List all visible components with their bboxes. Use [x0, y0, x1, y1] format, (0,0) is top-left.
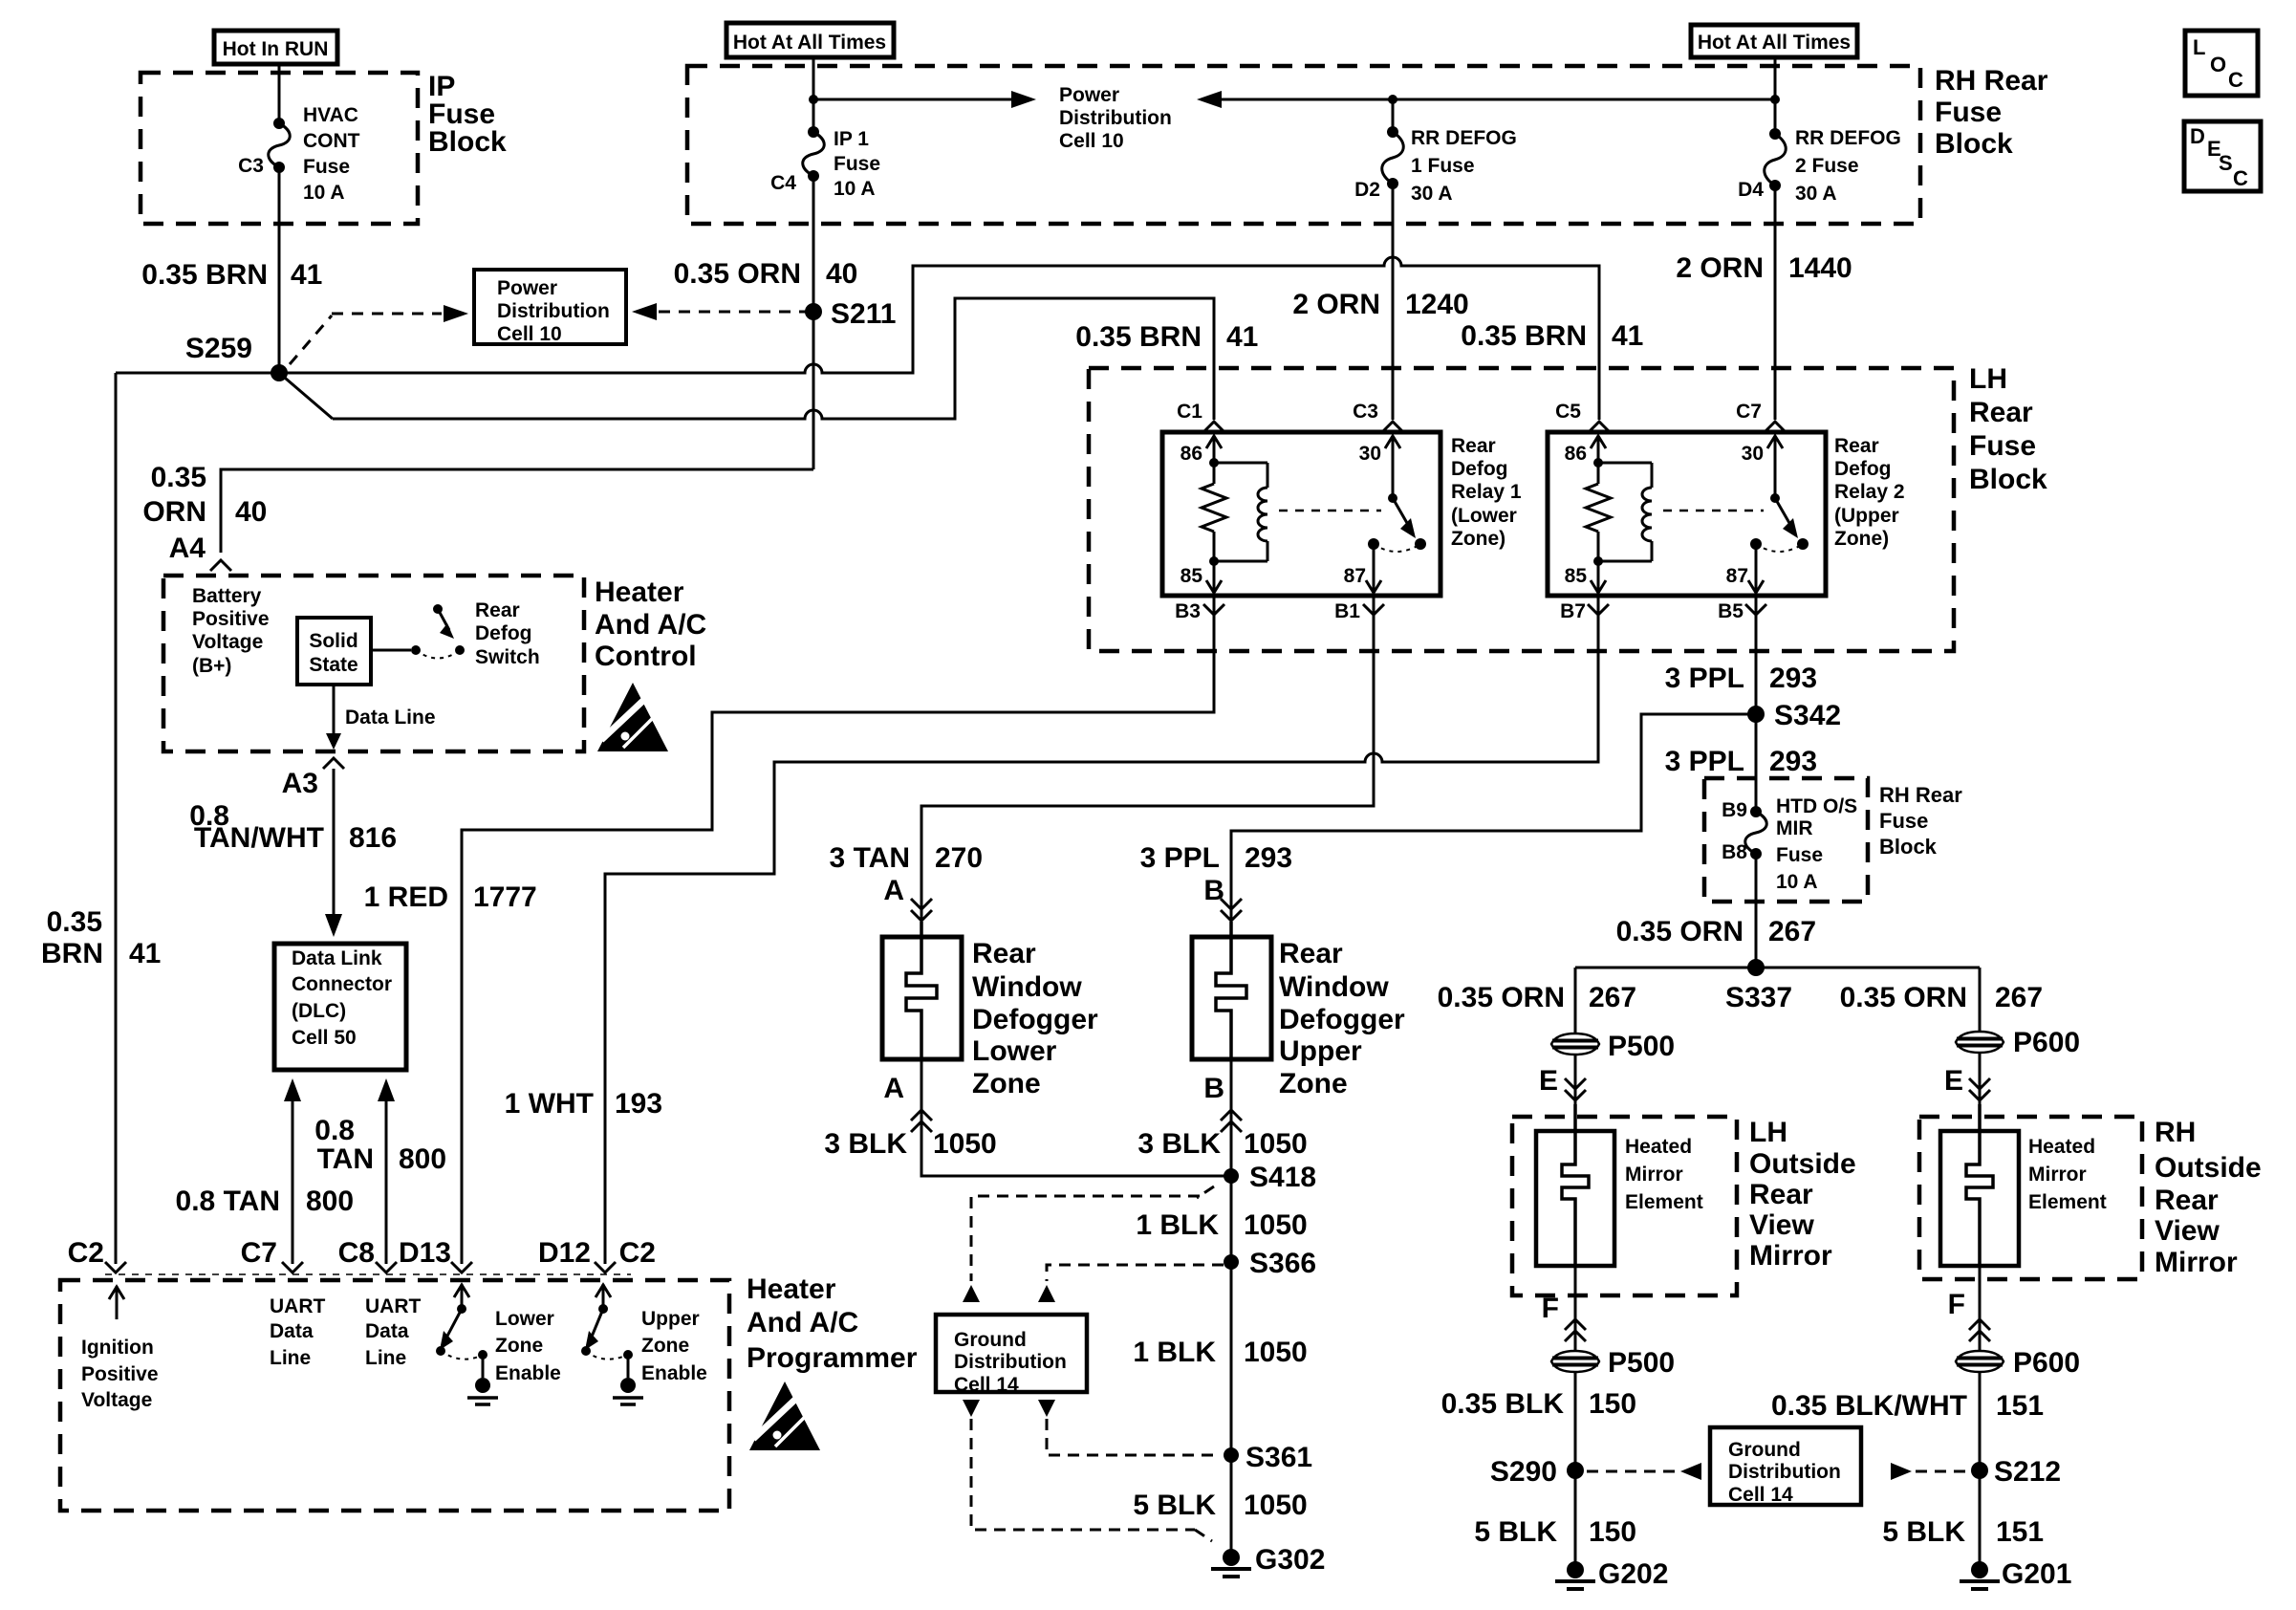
- svg-text:86: 86: [1180, 443, 1202, 465]
- svg-text:Block: Block: [1935, 128, 2013, 160]
- svg-text:Mirror: Mirror: [1749, 1240, 1832, 1272]
- svg-text:S212: S212: [1994, 1456, 2061, 1488]
- svg-text:Programmer: Programmer: [747, 1342, 918, 1374]
- svg-text:C3: C3: [1353, 401, 1378, 423]
- svg-text:Lower: Lower: [972, 1035, 1057, 1067]
- svg-text:267: 267: [1995, 982, 2043, 1013]
- svg-text:Mirror: Mirror: [2028, 1164, 2087, 1186]
- svg-text:1 BLK: 1 BLK: [1133, 1337, 1216, 1368]
- svg-text:Power: Power: [497, 277, 557, 299]
- svg-text:41: 41: [291, 259, 322, 291]
- svg-text:2 ORN: 2 ORN: [1676, 252, 1764, 284]
- svg-text:40: 40: [826, 258, 857, 290]
- svg-text:Defogger: Defogger: [1279, 1004, 1405, 1035]
- svg-text:87: 87: [1344, 565, 1366, 587]
- svg-text:Relay 1: Relay 1: [1451, 481, 1522, 503]
- svg-text:Heater: Heater: [595, 577, 684, 608]
- svg-text:Cell 14: Cell 14: [954, 1374, 1019, 1396]
- svg-text:B: B: [1203, 1073, 1224, 1104]
- svg-text:B7: B7: [1560, 600, 1586, 622]
- svg-text:800: 800: [399, 1143, 446, 1175]
- svg-text:Fuse: Fuse: [834, 153, 880, 175]
- svg-text:S259: S259: [185, 333, 252, 364]
- svg-text:O: O: [2210, 53, 2226, 76]
- svg-text:Heated: Heated: [2028, 1136, 2095, 1158]
- svg-text:Cell 50: Cell 50: [292, 1027, 357, 1049]
- svg-text:LH: LH: [1969, 363, 2007, 395]
- svg-text:Fuse: Fuse: [1776, 844, 1823, 866]
- svg-text:Zone: Zone: [495, 1335, 543, 1357]
- svg-text:Connector: Connector: [292, 973, 392, 995]
- svg-text:Data: Data: [365, 1320, 409, 1342]
- svg-text:Cell 10: Cell 10: [497, 323, 562, 345]
- svg-text:Rear: Rear: [1834, 435, 1879, 457]
- svg-text:0.35 ORN: 0.35 ORN: [1438, 982, 1565, 1013]
- svg-text:0.8 TAN: 0.8 TAN: [176, 1186, 280, 1217]
- svg-text:Data: Data: [270, 1320, 314, 1342]
- svg-text:Heated: Heated: [1625, 1136, 1692, 1158]
- svg-text:State: State: [309, 654, 357, 676]
- svg-text:30: 30: [1359, 443, 1381, 465]
- svg-text:1 WHT: 1 WHT: [505, 1088, 594, 1120]
- svg-text:Defog: Defog: [475, 622, 532, 644]
- svg-text:CONT: CONT: [303, 130, 360, 152]
- svg-text:IP 1: IP 1: [834, 128, 869, 150]
- svg-text:1050: 1050: [933, 1128, 997, 1160]
- svg-text:5 BLK: 5 BLK: [1474, 1516, 1557, 1548]
- svg-text:E: E: [1944, 1065, 1963, 1097]
- svg-text:3 TAN: 3 TAN: [830, 842, 910, 874]
- svg-text:2 Fuse: 2 Fuse: [1795, 155, 1859, 177]
- svg-text:S337: S337: [1725, 982, 1792, 1013]
- svg-text:0.35: 0.35: [47, 906, 102, 938]
- svg-text:151: 151: [1996, 1390, 2044, 1422]
- svg-text:193: 193: [615, 1088, 662, 1120]
- svg-text:HTD O/S: HTD O/S: [1776, 795, 1857, 817]
- svg-text:C1: C1: [1177, 401, 1202, 423]
- svg-text:B5: B5: [1718, 600, 1744, 622]
- svg-text:Cell 10: Cell 10: [1059, 130, 1124, 152]
- svg-text:Rear: Rear: [1451, 435, 1496, 457]
- svg-text:Relay 2: Relay 2: [1834, 481, 1905, 503]
- svg-text:151: 151: [1996, 1516, 2044, 1548]
- svg-text:C7: C7: [241, 1237, 277, 1269]
- svg-text:S342: S342: [1774, 700, 1841, 731]
- svg-text:270: 270: [935, 842, 983, 874]
- svg-text:0.35 BLK/WHT: 0.35 BLK/WHT: [1771, 1390, 1967, 1422]
- svg-text:B8: B8: [1722, 841, 1747, 863]
- svg-text:0.35 ORN: 0.35 ORN: [1616, 916, 1744, 947]
- svg-text:150: 150: [1589, 1388, 1636, 1420]
- svg-text:View: View: [2155, 1215, 2220, 1247]
- svg-text:1 RED: 1 RED: [364, 881, 448, 913]
- svg-text:Control: Control: [595, 641, 697, 672]
- svg-text:UART: UART: [270, 1295, 325, 1317]
- svg-text:Lower: Lower: [495, 1308, 554, 1330]
- svg-text:Zone: Zone: [641, 1335, 689, 1357]
- svg-text:Ignition: Ignition: [81, 1337, 154, 1359]
- svg-text:0.35 ORN: 0.35 ORN: [674, 258, 801, 290]
- svg-text:BRN: BRN: [41, 938, 103, 969]
- svg-text:(B+): (B+): [192, 655, 231, 677]
- svg-text:40: 40: [235, 496, 267, 528]
- svg-text:0.35: 0.35: [151, 462, 206, 493]
- svg-text:Zone: Zone: [972, 1068, 1041, 1099]
- svg-text:2 ORN: 2 ORN: [1292, 289, 1380, 320]
- svg-text:(DLC): (DLC): [292, 1000, 346, 1022]
- svg-text:TAN: TAN: [317, 1143, 374, 1175]
- svg-text:293: 293: [1769, 746, 1817, 777]
- svg-text:3 PPL: 3 PPL: [1140, 842, 1220, 874]
- svg-text:Battery: Battery: [192, 585, 262, 607]
- svg-text:41: 41: [1226, 321, 1258, 353]
- svg-text:5 BLK: 5 BLK: [1882, 1516, 1965, 1548]
- svg-text:(Lower: (Lower: [1451, 505, 1517, 527]
- svg-text:85: 85: [1565, 565, 1588, 587]
- svg-text:Solid: Solid: [309, 630, 357, 652]
- svg-text:C: C: [2233, 166, 2248, 190]
- svg-text:85: 85: [1180, 565, 1203, 587]
- svg-text:Ground: Ground: [954, 1329, 1027, 1351]
- svg-text:B9: B9: [1722, 799, 1747, 821]
- svg-text:Power: Power: [1059, 84, 1119, 106]
- svg-text:Line: Line: [270, 1347, 311, 1369]
- svg-text:Line: Line: [365, 1347, 406, 1369]
- svg-text:Heater: Heater: [747, 1273, 836, 1305]
- svg-text:S361: S361: [1245, 1442, 1312, 1473]
- svg-text:P500: P500: [1608, 1031, 1675, 1062]
- svg-text:3 PPL: 3 PPL: [1665, 663, 1744, 694]
- svg-text:RR DEFOG: RR DEFOG: [1411, 127, 1517, 149]
- svg-text:S290: S290: [1490, 1456, 1557, 1488]
- svg-text:Upper: Upper: [641, 1308, 700, 1330]
- svg-text:1 Fuse: 1 Fuse: [1411, 155, 1475, 177]
- svg-text:P500: P500: [1608, 1347, 1675, 1379]
- svg-text:F: F: [1948, 1289, 1965, 1320]
- svg-text:A: A: [883, 1073, 904, 1104]
- svg-text:A4: A4: [169, 533, 206, 564]
- svg-text:41: 41: [129, 938, 161, 969]
- svg-text:Window: Window: [972, 971, 1082, 1003]
- svg-text:S: S: [2219, 151, 2233, 175]
- svg-text:800: 800: [306, 1186, 354, 1217]
- svg-text:1050: 1050: [1244, 1337, 1308, 1368]
- svg-text:Distribution: Distribution: [497, 300, 610, 322]
- svg-text:1 BLK: 1 BLK: [1136, 1209, 1219, 1241]
- svg-text:Rear: Rear: [1749, 1179, 1813, 1210]
- svg-text:293: 293: [1769, 663, 1817, 694]
- svg-text:Positive: Positive: [81, 1363, 159, 1385]
- svg-text:C: C: [2228, 68, 2243, 92]
- svg-text:C2: C2: [68, 1237, 104, 1269]
- svg-text:D: D: [2190, 124, 2205, 148]
- svg-text:D12: D12: [538, 1237, 591, 1269]
- svg-text:Defog: Defog: [1451, 458, 1508, 480]
- svg-text:Rear: Rear: [972, 938, 1036, 969]
- svg-text:C7: C7: [1736, 401, 1762, 423]
- svg-text:10 A: 10 A: [303, 182, 345, 204]
- svg-text:Hot In RUN: Hot In RUN: [223, 38, 329, 60]
- svg-text:1440: 1440: [1788, 252, 1852, 284]
- svg-text:0.35 ORN: 0.35 ORN: [1840, 982, 1967, 1013]
- svg-text:Hot At All Times: Hot At All Times: [1698, 32, 1851, 54]
- svg-text:(Upper: (Upper: [1834, 505, 1899, 527]
- svg-text:D13: D13: [399, 1237, 451, 1269]
- svg-text:MIR: MIR: [1776, 817, 1813, 839]
- svg-text:L: L: [2193, 35, 2205, 59]
- svg-text:0.35 BRN: 0.35 BRN: [1075, 321, 1202, 353]
- svg-text:And A/C: And A/C: [595, 609, 706, 641]
- svg-text:1050: 1050: [1244, 1128, 1308, 1160]
- svg-text:86: 86: [1565, 443, 1587, 465]
- svg-text:Block: Block: [1969, 464, 2047, 495]
- svg-text:Hot At All Times: Hot At All Times: [733, 32, 886, 54]
- svg-text:150: 150: [1589, 1516, 1636, 1548]
- svg-text:267: 267: [1768, 916, 1816, 947]
- svg-text:F: F: [1542, 1293, 1559, 1324]
- svg-text:Outside: Outside: [2155, 1152, 2262, 1184]
- svg-text:3 BLK: 3 BLK: [824, 1128, 907, 1160]
- svg-text:E: E: [1539, 1065, 1558, 1097]
- svg-text:B1: B1: [1334, 600, 1360, 622]
- svg-text:Positive: Positive: [192, 608, 270, 630]
- svg-text:ORN: ORN: [142, 496, 206, 528]
- svg-text:Outside: Outside: [1749, 1148, 1856, 1180]
- svg-text:G302: G302: [1255, 1544, 1325, 1576]
- svg-text:Fuse: Fuse: [303, 156, 350, 178]
- svg-text:Zone): Zone): [1451, 528, 1505, 550]
- svg-text:D2: D2: [1354, 179, 1380, 201]
- svg-text:RH: RH: [2155, 1117, 2196, 1148]
- svg-text:Defog: Defog: [1834, 458, 1892, 480]
- svg-text:1777: 1777: [473, 881, 537, 913]
- svg-text:Block: Block: [1879, 835, 1938, 859]
- svg-text:0.35 BRN: 0.35 BRN: [141, 259, 268, 291]
- svg-text:30 A: 30 A: [1411, 183, 1453, 205]
- svg-text:Rear: Rear: [1969, 397, 2033, 428]
- svg-text:Block: Block: [428, 126, 507, 158]
- svg-text:0.35 BLK: 0.35 BLK: [1441, 1388, 1565, 1420]
- svg-text:3 BLK: 3 BLK: [1137, 1128, 1221, 1160]
- svg-text:C8: C8: [338, 1237, 375, 1269]
- svg-text:Mirror: Mirror: [2155, 1247, 2238, 1278]
- svg-text:TAN/WHT: TAN/WHT: [194, 822, 324, 854]
- svg-text:B: B: [1203, 875, 1224, 906]
- svg-text:Enable: Enable: [495, 1362, 561, 1384]
- svg-text:Rear: Rear: [2155, 1185, 2219, 1216]
- svg-text:Voltage: Voltage: [192, 631, 263, 653]
- svg-text:Enable: Enable: [641, 1362, 707, 1384]
- svg-text:87: 87: [1726, 565, 1748, 587]
- svg-text:Data Link: Data Link: [292, 947, 382, 969]
- svg-text:5 BLK: 5 BLK: [1133, 1490, 1216, 1521]
- svg-text:C5: C5: [1555, 401, 1581, 423]
- svg-text:Switch: Switch: [475, 646, 540, 668]
- svg-text:G201: G201: [2002, 1558, 2071, 1590]
- svg-text:41: 41: [1612, 320, 1643, 352]
- svg-text:816: 816: [349, 822, 397, 854]
- svg-text:30: 30: [1742, 443, 1764, 465]
- svg-text:0.8: 0.8: [314, 1115, 355, 1146]
- svg-text:10 A: 10 A: [1776, 871, 1818, 893]
- svg-text:P600: P600: [2013, 1027, 2080, 1058]
- svg-text:UART: UART: [365, 1295, 421, 1317]
- svg-text:RH Rear: RH Rear: [1879, 783, 1962, 807]
- svg-text:RR DEFOG: RR DEFOG: [1795, 127, 1901, 149]
- svg-text:1050: 1050: [1244, 1209, 1308, 1241]
- svg-text:HVAC: HVAC: [303, 104, 358, 126]
- svg-text:30 A: 30 A: [1795, 183, 1837, 205]
- svg-text:Distribution: Distribution: [1059, 107, 1172, 129]
- svg-text:267: 267: [1589, 982, 1636, 1013]
- svg-text:10 A: 10 A: [834, 178, 876, 200]
- svg-text:S366: S366: [1249, 1248, 1316, 1279]
- svg-text:C3: C3: [238, 155, 264, 177]
- svg-text:B3: B3: [1175, 600, 1201, 622]
- svg-text:S418: S418: [1249, 1162, 1316, 1193]
- svg-text:293: 293: [1245, 842, 1292, 874]
- svg-text:P600: P600: [2013, 1347, 2080, 1379]
- svg-text:Data Line: Data Line: [345, 707, 436, 729]
- svg-text:1240: 1240: [1405, 289, 1469, 320]
- svg-text:C2: C2: [619, 1237, 656, 1269]
- svg-text:G202: G202: [1598, 1558, 1668, 1590]
- svg-text:Zone): Zone): [1834, 528, 1889, 550]
- svg-text:Distribution: Distribution: [1728, 1461, 1841, 1483]
- svg-text:A: A: [883, 875, 904, 906]
- svg-text:Fuse: Fuse: [1879, 809, 1928, 833]
- svg-text:D4: D4: [1738, 179, 1764, 201]
- svg-text:Zone: Zone: [1279, 1068, 1348, 1099]
- svg-text:3 PPL: 3 PPL: [1665, 746, 1744, 777]
- svg-text:Cell 14: Cell 14: [1728, 1484, 1793, 1506]
- svg-text:Upper: Upper: [1279, 1035, 1362, 1067]
- svg-text:Rear: Rear: [475, 599, 520, 621]
- svg-text:Fuse: Fuse: [1935, 97, 2002, 128]
- svg-text:Element: Element: [1625, 1191, 1703, 1213]
- svg-text:Window: Window: [1279, 971, 1389, 1003]
- svg-text:Element: Element: [2028, 1191, 2107, 1213]
- svg-text:Voltage: Voltage: [81, 1389, 152, 1411]
- svg-text:Fuse: Fuse: [1969, 430, 2036, 462]
- svg-text:C4: C4: [770, 172, 796, 194]
- svg-text:RH Rear: RH Rear: [1935, 65, 2048, 97]
- svg-text:Rear: Rear: [1279, 938, 1343, 969]
- svg-text:0.35 BRN: 0.35 BRN: [1461, 320, 1587, 352]
- svg-text:Ground: Ground: [1728, 1439, 1801, 1461]
- svg-text:View: View: [1749, 1209, 1814, 1241]
- svg-text:1050: 1050: [1244, 1490, 1308, 1521]
- svg-text:And A/C: And A/C: [747, 1307, 858, 1338]
- svg-text:LH: LH: [1749, 1117, 1787, 1148]
- svg-text:Distribution: Distribution: [954, 1351, 1067, 1373]
- svg-text:Mirror: Mirror: [1625, 1164, 1683, 1186]
- svg-text:A3: A3: [282, 768, 318, 799]
- svg-text:Defogger: Defogger: [972, 1004, 1098, 1035]
- svg-text:S211: S211: [831, 298, 896, 330]
